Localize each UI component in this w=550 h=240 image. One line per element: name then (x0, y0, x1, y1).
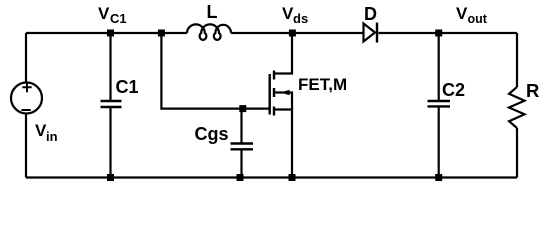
svg-text:C1: C1 (110, 11, 127, 26)
svg-text:R: R (526, 80, 539, 101)
svg-text:out: out (468, 12, 488, 26)
svg-text:FET,M: FET,M (298, 75, 347, 94)
svg-text:V: V (456, 4, 468, 23)
svg-text:in: in (46, 129, 58, 144)
svg-text:V: V (98, 4, 110, 23)
svg-text:ds: ds (293, 11, 308, 26)
svg-text:D: D (364, 4, 377, 24)
svg-text:Cgs: Cgs (195, 124, 229, 144)
svg-text:L: L (207, 2, 218, 22)
svg-text:C2: C2 (442, 80, 465, 100)
svg-text:C1: C1 (116, 77, 139, 97)
